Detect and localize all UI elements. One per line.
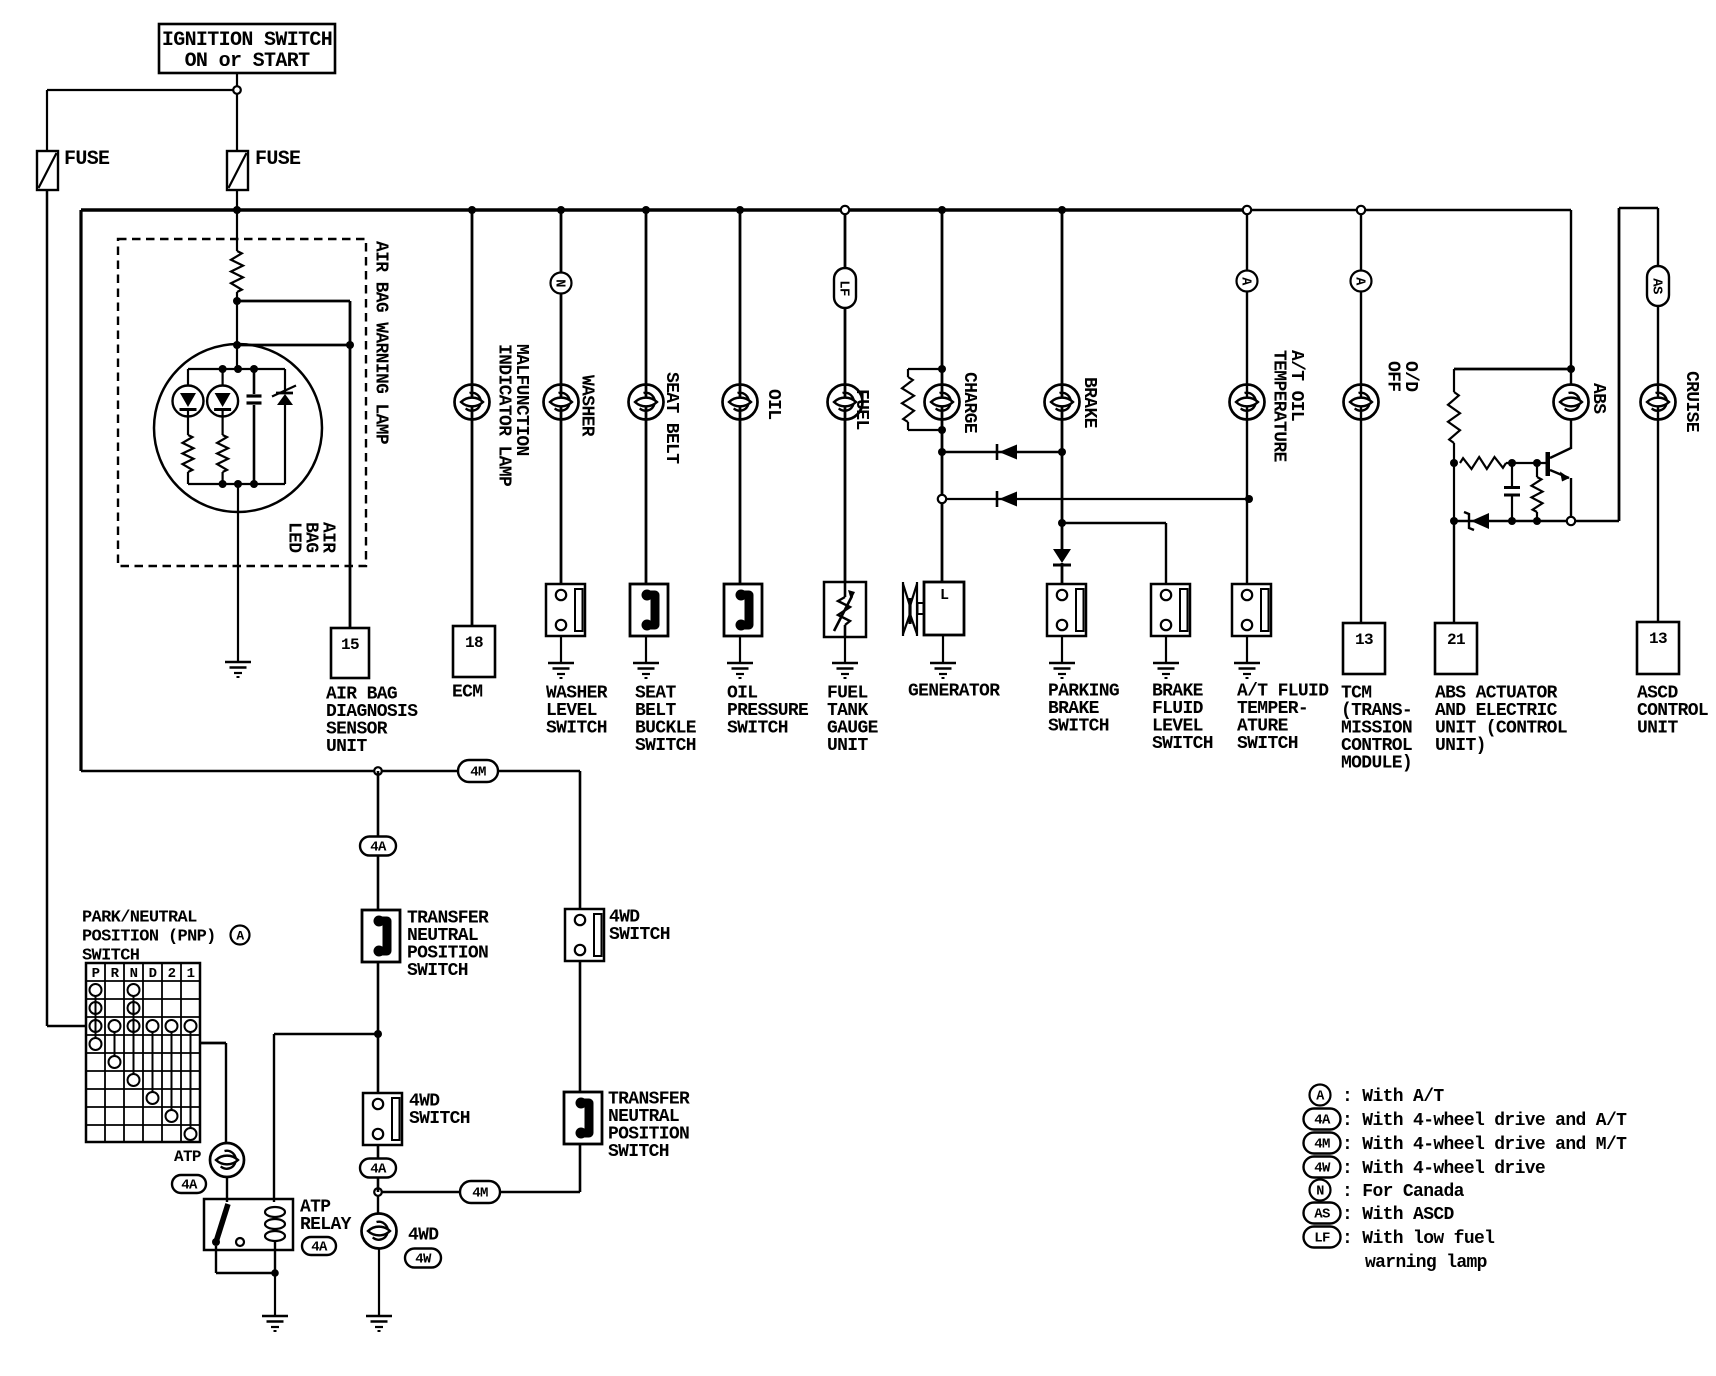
wire ABS branch left <box>1454 368 1571 371</box>
wire CHARGE column <box>941 210 944 582</box>
svg-text:: With 4-wheel drive: : With 4-wheel drive <box>1342 1159 1545 1179</box>
wire collector to lamp <box>1570 419 1572 449</box>
wire right loop middle <box>579 961 582 1092</box>
svg-text:FUEL: FUEL <box>851 389 871 430</box>
junction SEAT BELT-bus <box>642 206 650 214</box>
LED D1 <box>187 369 189 386</box>
svg-text:FUSE: FUSE <box>64 148 110 171</box>
wire bus to resistor <box>236 210 238 251</box>
wire OIL column <box>739 210 742 584</box>
node emitter output <box>1567 517 1575 525</box>
legend symbol A <box>1310 1085 1331 1106</box>
legend symbol 4A <box>1304 1109 1341 1130</box>
lamp WASHER <box>544 385 579 420</box>
junction OIL-bus <box>736 206 744 214</box>
svg-text:N: N <box>1316 1184 1324 1199</box>
LED module top rail <box>188 368 285 370</box>
wire A/T oil temp column <box>1246 214 1248 584</box>
relay contact <box>236 1238 244 1246</box>
PNP stub 2 <box>171 1032 173 1110</box>
svg-text:LF: LF <box>835 280 851 296</box>
svg-text:LF: LF <box>1314 1231 1330 1247</box>
junction cap top <box>1508 459 1516 467</box>
junction brake fluid branch <box>1058 519 1066 527</box>
ground washer level switch <box>548 662 574 665</box>
ground generator <box>930 662 956 665</box>
svg-text:LED: LED <box>284 522 304 553</box>
generator speaker symbol <box>902 582 904 636</box>
svg-text:BRAKE: BRAKE <box>1079 377 1099 429</box>
wire PNP output row4 <box>200 1042 226 1045</box>
junction WASHER-bus <box>557 206 565 214</box>
PNP contact 2 row8 <box>166 1110 178 1122</box>
junction ATP relay branch <box>374 1030 382 1038</box>
ASCD control unit box 13 <box>1637 622 1679 674</box>
wire relay coil branch <box>274 1033 378 1035</box>
ABS actuator box 21 <box>1435 623 1477 674</box>
wire resistor loop top <box>908 368 942 370</box>
seat belt buckle switch box <box>630 584 668 636</box>
wire generator to ground <box>942 635 944 663</box>
svg-text:SWITCH: SWITCH <box>727 718 788 738</box>
wire node A2 horizontal <box>237 344 350 347</box>
svg-text:SWITCH: SWITCH <box>1048 716 1109 736</box>
svg-text:4WD: 4WD <box>408 1225 439 1245</box>
svg-text:FUSE: FUSE <box>255 148 301 171</box>
ground brake fluid level switch <box>1153 662 1179 665</box>
svg-text:4A: 4A <box>370 1162 387 1178</box>
ATP relay box <box>204 1199 293 1250</box>
ground ATP relay <box>262 1315 288 1318</box>
wire R1 to node <box>1453 443 1455 463</box>
wire fuse1 down left side <box>46 190 49 1026</box>
svg-text:AIR BAG WARNING LAMP: AIR BAG WARNING LAMP <box>371 241 391 445</box>
svg-text:POSITION (PNP): POSITION (PNP) <box>82 928 216 947</box>
svg-text:CHARGE: CHARGE <box>959 372 979 434</box>
wire ignition to node <box>236 73 238 90</box>
resistor air bag feed <box>231 251 243 292</box>
junction base network left <box>1450 459 1458 467</box>
lamp 4WD <box>362 1214 397 1249</box>
wire right branch down <box>349 301 352 345</box>
PNP stub R <box>114 1032 116 1056</box>
svg-text:TEMPERATURE: TEMPERATURE <box>1269 350 1289 463</box>
wire washer switch to ground <box>560 636 562 663</box>
svg-text:: With A/T: : With A/T <box>1342 1087 1444 1107</box>
generator box <box>924 582 964 635</box>
wire riser top to cruise feed <box>1619 207 1658 209</box>
wire resistor to node <box>236 292 238 301</box>
capacitor ABS <box>1511 463 1513 486</box>
svg-text:WASHER: WASHER <box>577 375 597 437</box>
svg-text:A: A <box>236 928 244 943</box>
svg-text:MODULE): MODULE) <box>1341 753 1412 773</box>
svg-text:CRUISE: CRUISE <box>1681 371 1701 433</box>
wire ABS column <box>1570 210 1572 384</box>
resistor under D1 <box>187 411 189 435</box>
wire fuel gauge to ground <box>844 637 846 663</box>
TCM box 13 <box>1343 623 1385 674</box>
lamp CRUISE <box>1641 385 1676 420</box>
lamp O/D OFF <box>1344 385 1379 420</box>
wire node to 4WD lamp <box>377 1196 379 1214</box>
PNP contacts row2 <box>90 1002 102 1014</box>
node 4M-bottom <box>374 1188 382 1196</box>
junction charge diode line <box>938 448 946 456</box>
wire node to fuse2 <box>236 90 238 151</box>
ground A/T fluid temperature switch <box>1234 662 1260 665</box>
svg-text:18: 18 <box>465 634 483 652</box>
junction bottom rail x254 <box>250 480 258 488</box>
svg-text:OFF: OFF <box>1383 361 1403 391</box>
svg-text:RELAY: RELAY <box>300 1215 352 1235</box>
junction fuse2-bus <box>233 206 241 214</box>
fuel tank gauge unit box <box>824 582 866 637</box>
tag 4A ATP <box>172 1175 206 1193</box>
zener diode in LED module <box>284 369 286 392</box>
tag 4W <box>405 1249 441 1268</box>
svg-text:PARK/NEUTRAL: PARK/NEUTRAL <box>82 909 197 928</box>
svg-text:P: P <box>92 966 100 982</box>
svg-text:SWITCH: SWITCH <box>609 925 670 945</box>
PNP contact R row5 <box>109 1056 121 1068</box>
node 4M-left <box>374 767 382 775</box>
wire A/T switch to ground <box>1246 636 1248 663</box>
lamp FUEL <box>828 385 863 420</box>
bus wire main horizontal <box>81 208 1248 211</box>
symbol A PNP <box>231 926 250 945</box>
svg-text:SWITCH: SWITCH <box>635 736 696 756</box>
svg-text:4W: 4W <box>1314 1161 1331 1177</box>
resistor parallel with charge lamp <box>902 377 914 422</box>
lamp ATP <box>210 1143 244 1177</box>
lamp BRAKE <box>1045 385 1080 420</box>
wire LED module to ground <box>237 484 239 662</box>
svg-text:SWITCH: SWITCH <box>409 1109 470 1129</box>
wire O/D OFF column <box>1360 214 1362 623</box>
wire middle column top <box>377 771 380 910</box>
junction bottom rail x238 <box>234 480 242 488</box>
node OD-bus <box>1357 206 1365 214</box>
transistor Q1 ABS <box>1546 452 1551 476</box>
wire oil switch to ground <box>739 636 741 663</box>
wire bottom horizontal 4M run <box>81 770 580 773</box>
node A3 <box>233 341 241 349</box>
node below ignition switch <box>233 86 241 94</box>
svg-text:SWITCH: SWITCH <box>546 718 607 738</box>
diode parking brake <box>1053 549 1071 563</box>
svg-text:D: D <box>149 966 157 982</box>
wire CRUISE column <box>1657 208 1659 622</box>
air bag diagnosis sensor unit box 15 <box>331 628 369 678</box>
node diode2 on charge line <box>938 495 946 503</box>
PNP switch grid <box>86 963 200 1142</box>
A/T fluid temperature switch box <box>1232 584 1271 636</box>
zener diode ABS <box>1454 520 1567 522</box>
svg-text:ECM: ECM <box>452 682 482 702</box>
svg-text:SWITCH: SWITCH <box>407 961 468 981</box>
bus wire left vertical drop <box>79 210 82 771</box>
wire FUEL column <box>844 214 847 582</box>
wire ABS unit drop <box>1453 521 1455 623</box>
symbol A on O/D line <box>1351 271 1372 292</box>
svg-text:4W: 4W <box>415 1252 432 1268</box>
wire branch to brake fluid switch <box>1062 522 1166 524</box>
parking brake switch box <box>1047 584 1086 636</box>
svg-text:R: R <box>111 966 120 982</box>
PNP contact P row4 <box>90 1038 102 1050</box>
junction ABS branch <box>1567 365 1575 373</box>
PNP stub N <box>133 996 135 1074</box>
ground oil pressure switch <box>727 662 753 665</box>
svg-text:AS: AS <box>1648 278 1664 294</box>
relay switch blade <box>216 1204 228 1242</box>
wire 4WD lamp to ground <box>378 1248 380 1316</box>
svg-text:4M: 4M <box>472 1186 488 1202</box>
ground fuel tank gauge unit <box>832 662 858 665</box>
lamp OIL <box>723 385 758 420</box>
ground 4WD lamp <box>366 1315 392 1318</box>
dashed box AIR BAG WARNING LAMP <box>118 239 366 566</box>
svg-text:: With ASCD: : With ASCD <box>1342 1205 1455 1225</box>
svg-text:IGNITION SWITCH: IGNITION SWITCH <box>162 29 332 52</box>
wire relay to ground <box>274 1273 276 1316</box>
svg-text:4M: 4M <box>1314 1137 1330 1153</box>
wire brake fluid to ground <box>1165 636 1167 663</box>
svg-text:ABS: ABS <box>1588 383 1608 414</box>
wire WASHER column <box>560 210 563 584</box>
junction top rail x222 <box>219 365 227 373</box>
lamp MALFUNCTION INDICATOR <box>455 385 490 420</box>
lamp ABS <box>1554 385 1589 420</box>
relay coil <box>265 1207 285 1217</box>
tag 4A top <box>360 837 396 856</box>
resistor R3 ABS <box>1536 463 1538 477</box>
legend symbol AS <box>1304 1203 1341 1224</box>
ground parking brake switch <box>1049 662 1075 665</box>
svg-text:SWITCH: SWITCH <box>608 1142 669 1162</box>
svg-text:: For Canada: : For Canada <box>1342 1182 1465 1202</box>
tag 4M top <box>458 760 498 782</box>
transfer neutral position switch box middle <box>362 910 400 962</box>
air bag LED module circle <box>154 344 322 512</box>
junction r3 bottom <box>1533 517 1541 525</box>
junction charge resistor top <box>938 365 946 373</box>
PNP contacts row3 <box>90 1020 102 1032</box>
wire ATP lamp to relay <box>226 1177 228 1202</box>
svg-text:13: 13 <box>1355 631 1373 649</box>
svg-text:4A: 4A <box>370 840 387 856</box>
symbol AS with ASCD <box>1647 266 1669 306</box>
svg-text:: With 4-wheel drive and A/T: : With 4-wheel drive and A/T <box>1342 1111 1627 1131</box>
wire SEAT BELT column <box>645 210 648 584</box>
wire fuse2 to bus <box>236 190 238 210</box>
lamp CHARGE <box>925 385 960 420</box>
ground seat belt buckle switch <box>633 662 659 665</box>
svg-text:1: 1 <box>187 966 195 982</box>
junction relay outputs <box>271 1269 279 1277</box>
brake fluid level switch box <box>1151 584 1190 636</box>
junction CHARGE-bus <box>938 206 946 214</box>
legend symbol LF <box>1304 1227 1341 1248</box>
LED module bottom rail <box>188 483 285 485</box>
legend symbol 4W <box>1304 1157 1341 1178</box>
junction r3 top <box>1533 459 1541 467</box>
wire A1 to A3 <box>236 301 238 345</box>
tag 4A relay <box>302 1237 336 1255</box>
fuse F1 <box>37 151 58 190</box>
junction bottom rail x222 <box>219 480 227 488</box>
svg-text:N: N <box>130 966 138 982</box>
symbol A with A/T on A/T oil line <box>1237 271 1258 292</box>
svg-text:OIL: OIL <box>763 389 783 419</box>
ignition switch box <box>159 24 335 73</box>
LED D2 <box>222 369 224 386</box>
svg-text:L: L <box>940 587 949 604</box>
legend symbol 4M <box>1304 1133 1341 1154</box>
wire relay switch out <box>215 1246 217 1273</box>
node A1 <box>233 297 241 305</box>
svg-text:SWITCH: SWITCH <box>1152 734 1213 754</box>
bus wire right thin segment <box>1248 209 1571 211</box>
wire coil to junction <box>274 1241 276 1272</box>
node ATOIL-bus <box>1243 206 1251 214</box>
wire seat belt switch to ground <box>645 636 647 663</box>
tag 4M bottom <box>460 1181 500 1203</box>
junction diode2 line to A/T column <box>1245 495 1253 503</box>
svg-text:GENERATOR: GENERATOR <box>908 681 1000 701</box>
PNP stub P <box>95 996 97 1038</box>
svg-text:UNIT: UNIT <box>1637 718 1678 738</box>
svg-text:4A: 4A <box>311 1240 328 1256</box>
4WD switch box middle <box>363 1093 402 1145</box>
svg-text:: With low fuel: : With low fuel <box>1342 1229 1495 1249</box>
wire MIL column <box>471 210 474 626</box>
svg-text:UNIT: UNIT <box>326 737 367 757</box>
svg-text:SEAT BELT: SEAT BELT <box>661 372 681 464</box>
svg-text:4M: 4M <box>470 765 486 781</box>
wire down to resistor R1 <box>1453 369 1455 392</box>
fuse F2 <box>227 151 248 190</box>
symbol N for Canada on washer line <box>551 273 572 294</box>
wire R2 to base <box>1506 462 1546 464</box>
wire right loop bottom <box>579 1145 582 1192</box>
washer level switch box <box>546 584 585 636</box>
PNP contact N row6 <box>128 1074 140 1086</box>
4WD switch box right <box>565 909 604 961</box>
wire right riser <box>1618 208 1621 521</box>
svg-text:AS: AS <box>1314 1207 1330 1223</box>
junction zener left <box>1450 517 1458 525</box>
lamp SEAT BELT <box>629 385 664 420</box>
wire branch down to unit 15 <box>349 345 352 628</box>
svg-text:ON or START: ON or START <box>185 50 311 73</box>
svg-text:UNIT): UNIT) <box>1435 736 1486 756</box>
PNP contact 1 row9 <box>185 1128 197 1140</box>
transfer neutral position switch box right <box>564 1092 602 1144</box>
svg-text:INDICATOR LAMP: INDICATOR LAMP <box>494 344 514 487</box>
junction cap bottom <box>1508 517 1516 525</box>
wire A3 into LED circle <box>236 345 238 369</box>
wire middle column <box>377 963 380 1093</box>
legend symbol N <box>1310 1180 1331 1201</box>
wire parking brake to ground <box>1061 636 1063 663</box>
tag 4A bottom <box>360 1159 396 1178</box>
wire node branch left <box>47 89 237 91</box>
junction diode1-brake <box>1058 448 1066 456</box>
svg-text:: With 4-wheel drive and M/T: : With 4-wheel drive and M/T <box>1342 1135 1627 1155</box>
node FUEL-bus <box>841 206 849 214</box>
svg-text:13: 13 <box>1649 630 1667 648</box>
junction BRAKE-bus <box>1058 206 1066 214</box>
PNP stub D <box>152 1032 154 1092</box>
lamp A/T OIL TEMPERATURE <box>1230 385 1265 420</box>
wire right loop down <box>579 771 582 909</box>
PNP stub 1 <box>190 1032 192 1128</box>
junction top rail x254 <box>250 365 258 373</box>
wire resistor loop bottom <box>907 422 909 430</box>
ground air bag LED <box>225 661 251 664</box>
junction MIL-bus <box>468 206 476 214</box>
wire bottom 4M run <box>382 1191 580 1194</box>
wire emitter down <box>1570 478 1572 517</box>
resistor R1 ABS <box>1448 392 1460 443</box>
svg-text:UNIT: UNIT <box>827 736 868 756</box>
wire into PNP switch row3 <box>47 1025 86 1028</box>
svg-text:warning lamp: warning lamp <box>1365 1253 1487 1273</box>
symbol LF low fuel <box>834 268 856 308</box>
wire left branch down to fuse1 <box>46 90 48 151</box>
diode D2 charge to A/T temp line <box>946 498 1249 500</box>
ECM box 18 <box>453 626 495 677</box>
resistor R2 ABS horizontal <box>1460 457 1506 469</box>
svg-text:2: 2 <box>168 966 176 982</box>
wire left branch down <box>1453 463 1455 521</box>
capacitor in LED module <box>253 369 256 394</box>
svg-text:21: 21 <box>1447 631 1465 649</box>
wire node to right riser <box>1575 520 1619 522</box>
oil pressure switch box <box>724 584 762 636</box>
diode D1 charge-brake <box>942 451 1062 453</box>
wire middle below switch <box>377 1145 380 1192</box>
svg-text:SWITCH: SWITCH <box>1237 734 1298 754</box>
resistor under D2 <box>222 411 224 435</box>
junction top rail x238 <box>234 365 242 373</box>
wire node A1 right <box>237 300 350 303</box>
wire BRAKE column <box>1061 210 1064 549</box>
junction charge resistor bottom <box>938 426 946 434</box>
svg-text:4A: 4A <box>181 1178 198 1194</box>
PNP contact D row7 <box>147 1092 159 1104</box>
svg-text:15: 15 <box>341 636 359 654</box>
svg-text:4A: 4A <box>1314 1113 1331 1129</box>
node A2 <box>346 341 354 349</box>
svg-text:ATP: ATP <box>174 1148 201 1166</box>
svg-text:N: N <box>552 279 567 287</box>
PNP contacts row1 <box>90 984 102 996</box>
